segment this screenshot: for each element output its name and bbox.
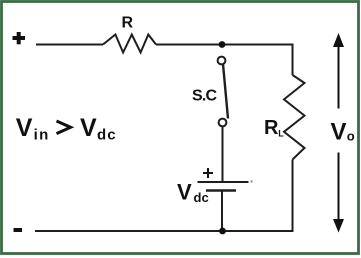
svg-text:dc: dc bbox=[194, 190, 209, 205]
svg-text:V: V bbox=[331, 119, 347, 146]
svg-text:V: V bbox=[80, 114, 97, 142]
svg-text:dc: dc bbox=[97, 127, 117, 144]
svg-text:in: in bbox=[34, 127, 50, 144]
svg-text:V: V bbox=[177, 180, 192, 205]
svg-text:R: R bbox=[264, 117, 279, 139]
svg-text:R: R bbox=[122, 15, 134, 32]
svg-text:L: L bbox=[278, 129, 284, 139]
svg-text:o: o bbox=[347, 129, 355, 144]
svg-text:S.C: S.C bbox=[192, 88, 218, 105]
svg-text:V: V bbox=[16, 114, 33, 142]
